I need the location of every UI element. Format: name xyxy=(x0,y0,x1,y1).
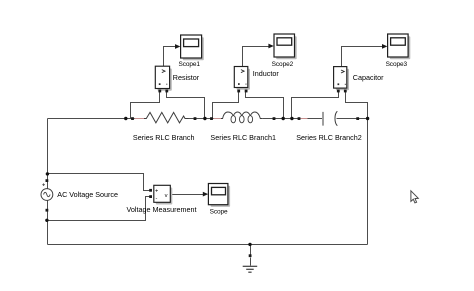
svg-text:Scope: Scope xyxy=(210,208,228,215)
svg-text:v: v xyxy=(165,193,168,199)
svg-text:Capacitor: Capacitor xyxy=(353,73,384,82)
svg-text:+: + xyxy=(155,189,158,195)
svg-text:Scope2: Scope2 xyxy=(272,61,294,68)
svg-text:Series RLC Branch1: Series RLC Branch1 xyxy=(210,133,276,142)
svg-text:Voltage Measurement: Voltage Measurement xyxy=(127,205,197,214)
svg-text:Scope1: Scope1 xyxy=(178,61,200,68)
svg-text:Resistor: Resistor xyxy=(173,73,200,82)
svg-text:Inductor: Inductor xyxy=(253,69,280,78)
svg-text:Series RLC Branch2: Series RLC Branch2 xyxy=(296,133,362,142)
svg-text:Series RLC Branch: Series RLC Branch xyxy=(133,133,195,142)
svg-text:-: - xyxy=(156,196,158,202)
svg-text:Scope3: Scope3 xyxy=(386,61,408,68)
svg-text:AC Voltage Source: AC Voltage Source xyxy=(57,190,118,199)
